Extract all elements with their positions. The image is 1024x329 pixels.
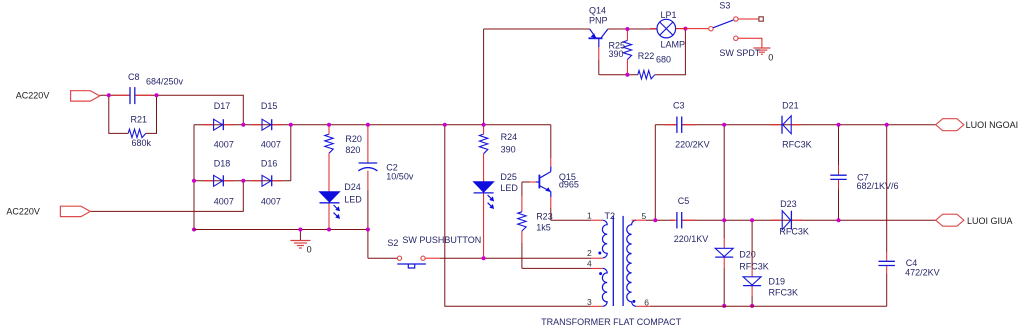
junction bridge left bottom	[192, 228, 196, 232]
svg-text:d965: d965	[559, 179, 579, 189]
svg-text:T2: T2	[605, 211, 616, 221]
switch S2 pushbutton	[397, 256, 401, 260]
transformer T2 winding 2 (pins 4-3)	[602, 268, 607, 306]
svg-text:D19: D19	[769, 277, 786, 287]
junction D20 row B	[722, 218, 726, 222]
ground symbol 0 under S3	[753, 47, 770, 49]
junction D20 bottom	[722, 304, 726, 308]
svg-text:684/250v: 684/250v	[146, 77, 184, 87]
wire D20 column	[723, 125, 725, 238]
svg-text:D15: D15	[261, 101, 278, 111]
svg-text:RFC3K: RFC3K	[739, 261, 769, 271]
wire bridge left vertical	[193, 125, 195, 230]
svg-text:3: 3	[587, 297, 592, 307]
wire R24/D25 branch vertical	[483, 29, 485, 125]
capacitor C3	[664, 124, 677, 126]
diode D17	[203, 124, 214, 126]
svg-text:220/2KV: 220/2KV	[675, 140, 710, 150]
lamp LP1	[650, 28, 657, 30]
wire R22 to LP1 right vertical	[655, 29, 686, 75]
wire S3 lower contact to ground	[738, 38, 762, 48]
svg-text:0: 0	[307, 245, 312, 255]
wire ground bus	[194, 229, 368, 231]
svg-text:C5: C5	[678, 196, 690, 206]
svg-text:LUOI GIUA: LUOI GIUA	[967, 216, 1013, 226]
wire D19 column	[751, 220, 753, 266]
svg-text:LED: LED	[344, 195, 362, 205]
svg-text:1: 1	[587, 211, 592, 221]
polarity dot winding2	[599, 272, 602, 275]
svg-text:R23: R23	[536, 212, 553, 222]
wire bridge top row / main positive rail	[194, 124, 551, 126]
wire bottom bus right (pin6 row)	[636, 305, 650, 307]
svg-text:RFC3K: RFC3K	[782, 140, 812, 150]
svg-text:LED: LED	[500, 183, 518, 193]
resistor R25	[626, 29, 628, 41]
svg-text:R21: R21	[131, 114, 148, 124]
svg-text:D16: D16	[261, 159, 278, 169]
svg-text:680: 680	[656, 55, 671, 65]
transistor Q15 collector wire	[550, 125, 552, 158]
svg-text:LP1: LP1	[661, 10, 677, 20]
wire C2 bottom to S2	[368, 257, 398, 259]
resistor R22	[638, 71, 655, 79]
svg-text:4007: 4007	[214, 197, 234, 207]
junction D20 row A	[722, 123, 726, 127]
junction D25 bottom on pin2 row	[482, 256, 486, 260]
diode D19	[743, 277, 761, 285]
svg-text:2: 2	[587, 248, 592, 258]
port AC220V top	[71, 91, 100, 101]
junction R25 bottom	[625, 73, 629, 77]
svg-text:AC220V: AC220V	[6, 206, 40, 216]
svg-text:C4: C4	[906, 258, 918, 268]
resistor R20	[325, 134, 333, 153]
diode D20	[715, 248, 733, 256]
junction C4 top	[885, 123, 889, 127]
transistor Q14	[589, 37, 603, 39]
svg-text:R22: R22	[638, 51, 655, 61]
svg-text:Q14: Q14	[589, 5, 606, 15]
wire R20/D24 branch	[328, 125, 330, 134]
wire mid vertical to pin3 row	[445, 125, 590, 307]
svg-text:682/1KV/6: 682/1KV/6	[857, 181, 899, 191]
svg-text:390: 390	[609, 49, 624, 59]
svg-text:LUOI NGOAI: LUOI NGOAI	[966, 120, 1019, 130]
svg-text:RFC3K: RFC3K	[779, 227, 809, 237]
junction C7 top	[837, 123, 841, 127]
svg-text:S2: S2	[387, 238, 398, 248]
svg-text:D24: D24	[344, 182, 361, 192]
svg-text:820: 820	[345, 145, 360, 155]
transistor Q15	[522, 181, 530, 183]
wire bridge right vertical	[290, 125, 292, 181]
junction LP1 right	[683, 27, 687, 31]
diode D18	[203, 180, 214, 182]
diode D15	[252, 124, 262, 126]
svg-text:10/50v: 10/50v	[386, 171, 414, 181]
svg-text:C3: C3	[673, 100, 685, 110]
svg-text:R20: R20	[345, 134, 362, 144]
svg-text:472/2KV: 472/2KV	[905, 268, 940, 278]
wire S2 to transformer pin2 row	[425, 257, 440, 259]
svg-text:SW SPDT: SW SPDT	[719, 48, 761, 58]
wire Q14 collector to LP1	[608, 28, 657, 30]
svg-text:R24: R24	[501, 132, 518, 142]
svg-text:4007: 4007	[261, 140, 281, 150]
svg-text:220/1KV: 220/1KV	[674, 234, 709, 244]
svg-text:RFC3K: RFC3K	[769, 288, 799, 298]
LED D24	[320, 192, 340, 202]
svg-text:D20: D20	[739, 250, 756, 260]
junction mid vertical top	[443, 123, 447, 127]
junction C2 top	[366, 123, 370, 127]
junction D24 bottom	[327, 228, 331, 232]
junction C7 bottom	[837, 218, 841, 222]
junction D19 bottom	[750, 304, 754, 308]
junction after C8	[155, 93, 159, 97]
wire pin5 to C5 row	[632, 219, 646, 221]
junction bridge bottom mid	[241, 179, 245, 183]
junction R24 top	[482, 123, 486, 127]
resistor R24	[479, 134, 487, 154]
transistor Q15 emitter wire	[550, 192, 552, 198]
junction bridge left mid	[192, 179, 196, 183]
wire R21 right side	[146, 95, 157, 133]
capacitor C2 polarized	[359, 162, 378, 164]
svg-text:S3: S3	[719, 1, 730, 11]
diode D23	[771, 219, 782, 221]
capacitor C5	[670, 219, 677, 221]
junction bridge top mid	[241, 123, 245, 127]
LED D25	[474, 182, 494, 192]
diode D16	[252, 180, 262, 182]
svg-text:D18: D18	[214, 159, 231, 169]
svg-text:4007: 4007	[214, 140, 234, 150]
polarity dot secondary	[632, 300, 635, 303]
svg-text:LAMP: LAMP	[661, 40, 686, 50]
svg-text:D17: D17	[214, 101, 231, 111]
junction pin5 riser	[653, 218, 657, 222]
wire row B (C5/D23 row)	[682, 219, 936, 221]
port LUOI NGOAI	[936, 119, 964, 131]
switch S3 SPDT	[676, 28, 709, 30]
svg-text:D21: D21	[782, 100, 799, 110]
transformer T2 winding 1 (pins 1-2)	[602, 220, 607, 258]
resistor R23 branch	[521, 182, 523, 196]
polarity dot winding1	[598, 252, 601, 255]
wire AC2 to bridge bottom mid-node	[90, 181, 243, 212]
junction R20 top	[327, 123, 331, 127]
svg-text:PNP: PNP	[589, 15, 608, 25]
capacitor C8	[113, 94, 130, 96]
svg-text:D25: D25	[500, 172, 517, 182]
wire bridge bottom row	[194, 180, 291, 182]
junction after AC port	[107, 93, 111, 97]
wire R22 row	[599, 74, 638, 76]
svg-text:SW PUSHBUTTON: SW PUSHBUTTON	[402, 235, 481, 245]
svg-text:D23: D23	[780, 199, 797, 209]
wire pin5 riser to row A	[654, 125, 656, 221]
transformer T2 secondary winding (pins 5-6)	[627, 220, 636, 306]
wire pin4 row	[522, 267, 591, 269]
wire pin1 row	[551, 219, 591, 221]
wire AC1 from port to bridge top mid-node	[100, 94, 130, 96]
svg-text:390: 390	[501, 145, 516, 155]
resistor R21	[128, 129, 146, 137]
wire top feed to Q14	[484, 28, 590, 30]
svg-text:4007: 4007	[261, 197, 281, 207]
svg-text:C8: C8	[128, 72, 140, 82]
svg-text:0: 0	[768, 53, 773, 63]
svg-text:5: 5	[642, 211, 647, 221]
junction C2/ground-bus tee	[366, 228, 370, 232]
svg-text:680k: 680k	[132, 138, 152, 148]
junction D19 top	[750, 218, 754, 222]
svg-text:4: 4	[587, 258, 592, 268]
transistor Q14 base lead down	[598, 38, 600, 47]
wire C2 branch down to S2	[367, 125, 369, 163]
junction R25 top	[625, 27, 629, 31]
wire R21 parallel loop	[109, 95, 128, 133]
svg-text:AC220V: AC220V	[16, 91, 50, 101]
transformer T2 core	[612, 216, 614, 306]
junction ground stem	[298, 228, 302, 232]
svg-text:TRANSFORMER FLAT COMPACT: TRANSFORMER FLAT COMPACT	[541, 317, 682, 327]
diode D21	[770, 124, 781, 126]
port AC220V bottom	[60, 206, 90, 216]
junction bridge right	[289, 123, 293, 127]
wire row A (C3/D21 row)	[655, 124, 676, 126]
capacitor C7 column	[838, 125, 840, 165]
capacitor C4 column	[886, 125, 888, 252]
ground symbol 0 left	[299, 230, 301, 241]
svg-text:1k5: 1k5	[536, 223, 551, 233]
port LUOI GIUA	[936, 214, 964, 226]
